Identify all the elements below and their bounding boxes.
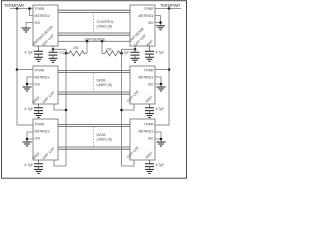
wire U1 MSTR/SLV tie to TERMPWR [30,9,34,16]
wire left drop to R1 [86,41,88,53]
capacitor C1 0.1uF [49,49,68,58]
svg-text:LINES (9): LINES (9) [97,25,112,29]
svg-text:LINES (9): LINES (9) [97,83,112,87]
svg-text:ISO: ISO [148,21,154,25]
label CONTROL LINES (9) [97,20,114,29]
wire U2 MSTR/SLV tie to ISO [27,77,33,84]
wire U4 MSTR/SLV tie to ISO [155,16,161,23]
wire U5 MSTR/SLV tie to ISO [155,77,161,84]
wire U6 diffsense tap [122,160,135,166]
ground U5 ISO [157,87,166,91]
resistor R1 20k [66,46,87,56]
ground U3 ISO [23,142,32,146]
wire TPWR U6 corner [155,124,169,126]
svg-text:DATA: DATA [97,79,107,83]
wire U5 ISO stub [155,84,161,87]
junction U6 ISO [160,138,163,141]
svg-text:ISO: ISO [35,83,41,87]
svg-text:20k: 20k [73,46,79,50]
IC U4 terminator upper-right [129,5,155,48]
wire U1 ISO to ground [26,23,33,28]
bus continuation dashed (data lower) [93,127,95,147]
ground U6 ISO [157,142,166,146]
svg-text:4.7µF: 4.7µF [156,50,165,54]
junction right DIFF vertical [120,52,123,55]
junction U2 ISO [26,83,29,86]
wire U5 diffsense tap [122,104,135,110]
wire TPWR U5 [155,69,169,71]
svg-text:MSTR/SLV: MSTR/SLV [35,129,51,133]
capacitor C8 4.7uF (U6 VREF) [145,160,164,169]
capacitor C4 4.7uF (U4 VREF) [145,46,164,57]
bus band CONTROL LINES (9) [58,10,130,35]
wire C2 node to R2 corner [122,49,136,53]
svg-text:MSTR/SLV: MSTR/SLV [138,76,154,80]
junction left TERMPWR mid [16,68,19,71]
ground C6 [145,114,154,118]
wire U4 DIFF CAP pin to node [134,46,136,49]
ground C2 [131,58,140,62]
svg-text:TERMPWR: TERMPWR [160,3,180,8]
capacitor C7 4.7uF (U3 VREF) [24,160,43,169]
junction U3 ISO [26,138,29,141]
wire U6 MSTR/SLV tie to ISO [155,132,161,139]
bus continuation dashed (control) [93,12,95,33]
wire U2 diffsense tap [54,104,66,110]
svg-text:4.7µF: 4.7µF [24,107,33,111]
svg-text:MSTR/SLV: MSTR/SLV [138,14,154,18]
svg-text:TPWR: TPWR [144,7,154,11]
IC U5 terminator middle-right [126,66,155,104]
svg-text:TPWR: TPWR [144,69,154,73]
capacitor C2 0.1uF [121,49,140,58]
ground C3 [34,57,43,61]
bus band DATA LINES (9) upper [58,70,130,94]
svg-text:TERMPWR: TERMPWR [4,3,24,8]
wire TPWR U3 corner [17,124,33,126]
label DATA LINES (9) lower [97,133,112,142]
junction right TERMPWR top [168,7,171,10]
junction DIFFSENSE left drop [86,40,89,43]
svg-text:DATA: DATA [97,133,107,137]
ground U1 ISO [22,28,31,32]
wire U6 ISO stub [155,139,161,142]
wire left TERMPWR rail vertical [16,9,18,126]
svg-text:MSTR/SLV: MSTR/SLV [35,14,51,18]
wire U2 ISO stub [27,84,33,87]
junction right tap mid [120,109,123,112]
ground C7 [34,170,43,174]
wire right drop to R2 [101,41,103,53]
svg-text:ISO: ISO [148,136,154,140]
label DATA LINES (9) upper [97,79,112,88]
ground U2 ISO [23,87,32,91]
border frame [2,1,187,179]
node TERMPWR (right label) [160,3,180,8]
ground C5 [34,114,43,118]
svg-text:4.7µF: 4.7µF [24,50,33,54]
bus band DATA LINES (9) lower [58,124,130,149]
junction C2 node [134,48,137,51]
net DIFFSENSE wire [58,40,130,42]
IC U2 terminator middle-left [32,66,58,105]
wire TERMPWR right horizontal [155,8,181,10]
junction left TERMPWR top [16,7,19,10]
svg-text:4.7µF: 4.7µF [24,163,33,167]
wire right DIFF vertical bus [121,53,123,166]
junction U5 ISO [160,83,163,86]
svg-text:4.7µF: 4.7µF [156,107,165,111]
wire right TERMPWR rail vertical [168,9,170,126]
junction left tap mid [65,109,68,112]
IC U1 terminator upper-left [32,5,58,47]
svg-text:TPWR: TPWR [144,122,154,126]
ground C1 [49,58,58,62]
wire U3 diffsense tap [54,160,66,166]
junction U4 ISO [159,21,162,24]
svg-text:TPWR: TPWR [35,7,45,11]
IC U6 terminator lower-right [126,119,155,160]
capacitor C6 4.7uF (U5 VREF) [145,104,164,113]
svg-text:LINES (9): LINES (9) [97,138,112,142]
svg-text:MSTR/SLV: MSTR/SLV [138,129,154,133]
svg-text:CONTROL: CONTROL [97,20,114,24]
junction right TERMPWR mid [168,68,171,71]
svg-text:4.7µF: 4.7µF [156,163,165,167]
wire U3 MSTR/SLV tie to ISO [27,132,33,139]
node TERMPWR (left label) [4,3,24,8]
ground U4 ISO [156,26,165,30]
resistor R2 20k [102,48,123,56]
junction C1 node [52,48,55,51]
svg-text:ISO: ISO [35,136,41,140]
svg-text:20k: 20k [106,48,112,52]
ground C8 [145,170,154,174]
svg-text:TPWR: TPWR [35,69,45,73]
wire left DIFF vertical bus [65,53,67,166]
svg-text:TPWR: TPWR [35,122,45,126]
junction DIFFSENSE right drop [101,40,104,43]
capacitor C3 4.7uF (U1 VREF) [24,46,43,57]
IC U3 terminator lower-left [32,119,58,161]
wire U3 ISO stub [27,139,33,142]
wire TERMPWR left horizontal [10,8,33,10]
capacitor C5 4.7uF (U2 VREF) [24,104,43,113]
ground C4 [145,57,154,61]
svg-text:ISO: ISO [35,21,41,25]
wire TPWR U2 [17,69,33,71]
wire U4 ISO stub [155,23,161,26]
junction U1 MSTR tie [28,7,31,10]
wire C1 node to R1 corner [53,49,66,53]
wire U1 DIFF CAP pin to node [52,46,54,49]
svg-text:MSTR/SLV: MSTR/SLV [35,76,51,80]
svg-text:ISO: ISO [148,83,154,87]
bus continuation dashed (data upper) [93,73,95,92]
junction left DIFF vertical [65,52,68,55]
